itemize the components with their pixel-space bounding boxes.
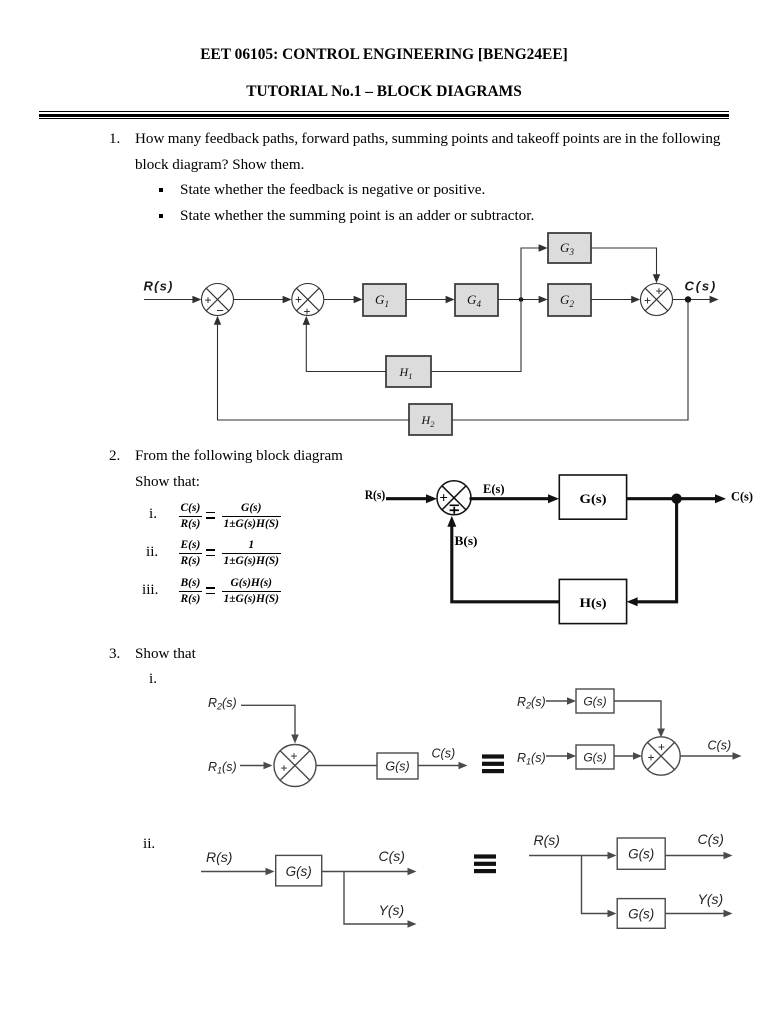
wire S5 to G(s) (316, 765, 377, 767)
wire H(s) to S4 bottom (452, 525, 560, 602)
wire branch to bottom G(s) 3ii right (582, 856, 611, 914)
svg-text:+: + (658, 740, 665, 754)
equation iii equals (206, 587, 216, 589)
wire G(s) to C(s) 3ii left (322, 871, 409, 873)
wire R2 to S5 top (241, 705, 295, 736)
summing point S5 (274, 745, 316, 787)
equivalence symbol 3i (482, 754, 504, 773)
wire S6 to C(s) right (680, 755, 734, 757)
equation i label (149, 506, 157, 523)
wire G(s) to output (627, 497, 717, 500)
wire R2 to G(s) top right (546, 700, 569, 702)
block G(s) 3i top right (576, 689, 614, 713)
wire input to S1 (144, 299, 193, 301)
svg-text:R(s): R(s) (206, 849, 232, 865)
block G4 (455, 284, 498, 316)
summing point S4 (437, 481, 471, 515)
block H(s) (559, 579, 626, 623)
svg-text:C(s): C(s) (379, 848, 405, 864)
question 2 number (109, 448, 120, 465)
bullet 2 text (180, 207, 534, 225)
block G(s) 3ii left (276, 855, 322, 886)
question 3 text (135, 646, 196, 663)
summing point S3 (641, 284, 673, 316)
svg-text:G(s): G(s) (583, 751, 606, 765)
equation ii label (146, 544, 158, 561)
wire takeoff down to H(s) (636, 499, 677, 602)
wire S2 to G1 (324, 299, 355, 301)
question 1 number (109, 131, 120, 148)
separator thick middle (39, 114, 729, 117)
block G2 (548, 284, 591, 316)
equation i lhs fraction (179, 502, 202, 531)
svg-text:B(s): B(s) (455, 534, 478, 548)
svg-text:+: + (290, 749, 297, 763)
show that (135, 474, 200, 491)
takeoff node dot (685, 296, 691, 302)
junction dot at branch (519, 297, 524, 302)
svg-text:G(s): G(s) (580, 492, 607, 506)
svg-text:R(s): R(s) (365, 488, 386, 502)
wire G3 to S3 top (591, 248, 657, 276)
wire G(s) bottom to S6 (614, 755, 635, 757)
wire S3 to output (673, 299, 712, 301)
equation ii lhs fraction (179, 539, 202, 568)
wire junction up to G3 (521, 248, 540, 300)
wire input to S4 (386, 497, 428, 500)
svg-text:+: + (655, 284, 662, 298)
svg-text:G(s): G(s) (286, 864, 312, 879)
bullet 1 square (159, 188, 163, 192)
equation iii lhs fraction (179, 577, 202, 606)
svg-text:+: + (439, 491, 448, 507)
wire S1 to S2 (234, 299, 285, 301)
block G(s) 3i left (377, 753, 418, 779)
wire R1 to G(s) bottom right (546, 755, 569, 757)
bullet 1 text (180, 181, 485, 199)
wire R1 to S5 (240, 765, 265, 767)
wire branch to Y(s) 3ii left (344, 872, 409, 925)
wire H2 feedback left segment to S1 (218, 323, 410, 420)
question 3 number (109, 646, 120, 663)
wire R to G(s) 3ii left (201, 871, 267, 873)
svg-text:R1(s): R1(s) (517, 751, 546, 767)
svg-text:C(s): C(s) (731, 490, 753, 504)
equivalence symbol 3ii (474, 854, 496, 873)
equation i rhs fraction (222, 502, 281, 531)
wire G4 to G2 with junction (498, 299, 540, 301)
svg-text:R2(s): R2(s) (208, 696, 237, 712)
block G1 (363, 284, 406, 316)
block G(s) 3ii bottom right (617, 899, 665, 929)
svg-text:G(s): G(s) (628, 906, 654, 921)
wire R to top G(s) 3ii right (529, 855, 610, 857)
svg-text:C(s): C(s) (708, 739, 732, 753)
svg-text:G(s): G(s) (385, 760, 409, 774)
bullet 2 square (159, 214, 163, 218)
svg-text:C(s): C(s) (685, 279, 717, 294)
svg-text:∓: ∓ (448, 503, 460, 518)
block H2 (409, 404, 452, 435)
equation i equals (206, 512, 216, 514)
svg-text:G(s): G(s) (628, 847, 654, 862)
wire G1 to G4 (406, 299, 447, 301)
block G(s) d2 (559, 475, 626, 519)
summing point S1 (202, 284, 234, 316)
svg-text:+: + (644, 294, 651, 308)
question 1 line 2 (135, 157, 304, 174)
wire top G(s) to C(s) 3ii right (665, 855, 725, 857)
title line 2 (246, 83, 522, 101)
svg-text:Y(s): Y(s) (698, 891, 724, 907)
svg-text:+: + (295, 293, 302, 307)
svg-text:+: + (647, 751, 654, 765)
svg-text:G(s): G(s) (583, 695, 606, 709)
separator thin bottom (39, 118, 729, 119)
wire H1 feedback right segment (431, 300, 521, 372)
item i (149, 671, 157, 688)
svg-text:+: + (204, 293, 211, 307)
equation ii equals (206, 549, 216, 551)
equation iii rhs fraction (222, 577, 281, 606)
takeoff node dot d2 (671, 494, 681, 504)
title line 1 (200, 46, 567, 64)
wire G2 to S3 (591, 299, 633, 301)
svg-text:+: + (303, 305, 310, 319)
svg-text:C(s): C(s) (432, 747, 456, 761)
wire bottom G(s) to Y(s) 3ii right (665, 913, 725, 915)
svg-text:+: + (280, 761, 287, 775)
wire G(s) top to S6 (614, 701, 661, 730)
wire G(s) to C(s) (418, 765, 460, 767)
question 1 line 1 (135, 131, 720, 148)
svg-text:R(s): R(s) (144, 279, 174, 294)
svg-text:E(s): E(s) (483, 482, 505, 496)
block H1 (386, 356, 431, 387)
wire H1 feedback left segment to S2 (306, 323, 386, 372)
block G(s) 3i bottom right (576, 745, 614, 769)
block G3 (548, 233, 591, 263)
svg-text:C(s): C(s) (698, 831, 724, 847)
block G(s) 3ii top right (617, 838, 665, 869)
equation iii label (142, 582, 158, 599)
separator thin top (39, 111, 729, 112)
svg-text:R2(s): R2(s) (517, 695, 546, 711)
equation ii rhs fraction (222, 539, 281, 568)
svg-text:H(s): H(s) (580, 596, 607, 610)
svg-text:−: − (216, 303, 224, 318)
svg-text:R(s): R(s) (534, 832, 560, 848)
svg-text:Y(s): Y(s) (379, 902, 405, 918)
question 2 text (135, 448, 343, 465)
wire S4 to G(s) (470, 497, 551, 500)
item ii (143, 836, 155, 853)
wire H2 feedback right segment (452, 300, 688, 421)
summing point S2 (292, 284, 324, 316)
summing point S6 (642, 737, 680, 775)
svg-text:R1(s): R1(s) (208, 760, 237, 776)
